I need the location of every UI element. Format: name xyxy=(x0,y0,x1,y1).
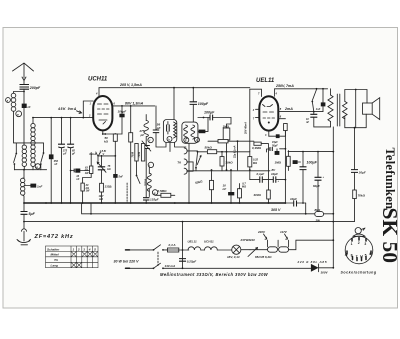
wire bypass xyxy=(250,179,286,181)
svg-text:3: 3 xyxy=(364,242,366,246)
volume switch arrow xyxy=(197,156,201,165)
resistor 20kOhm 1W xyxy=(83,174,92,184)
svg-text:0,5MΩ: 0,5MΩ xyxy=(158,189,168,193)
tube UEL11 pin 7b xyxy=(256,117,260,119)
svg-text:10µF: 10µF xyxy=(290,197,297,201)
svg-text:60µF: 60µF xyxy=(313,184,320,188)
svg-text:nF: nF xyxy=(306,121,310,124)
svg-text:24TW/B10: 24TW/B10 xyxy=(240,238,256,242)
svg-text:0,25µF: 0,25µF xyxy=(187,260,197,264)
svg-text:100µF: 100µF xyxy=(204,111,215,115)
padder capacitor 65pF xyxy=(70,118,72,145)
capacitor 20uF xyxy=(351,170,358,173)
node G2 circled xyxy=(152,190,157,195)
svg-text:300V: 300V xyxy=(321,271,329,275)
svg-text:50kΩ: 50kΩ xyxy=(205,146,213,150)
svg-text:5µF: 5µF xyxy=(29,212,36,216)
capacitor 16nF series xyxy=(70,170,72,172)
svg-text:pF: pF xyxy=(156,126,161,130)
svg-text:Meßinstrument 333Ω/V, Bereich: Meßinstrument 333Ω/V, Bereich 300V bzw 2… xyxy=(160,272,269,277)
node E circled xyxy=(16,111,22,117)
capacitor 5uF xyxy=(21,212,28,215)
TA jack 1 xyxy=(184,148,187,154)
svg-text:UCH11: UCH11 xyxy=(204,239,214,243)
tube UCH11 cathode wire xyxy=(102,130,104,134)
svg-text:Mittel: Mittel xyxy=(51,253,59,257)
svg-text:140 mA: 140 mA xyxy=(165,264,176,268)
wire grid line xyxy=(33,117,93,119)
coil 005 xyxy=(21,178,25,195)
svg-text:80V 1,3mA: 80V 1,3mA xyxy=(125,102,144,106)
antenna xyxy=(13,63,34,78)
svg-text:45K 9mA: 45K 9mA xyxy=(57,107,77,111)
svg-text:UEL11: UEL11 xyxy=(256,78,275,84)
svg-text:UCH11: UCH11 xyxy=(88,77,108,83)
cathode resistor xyxy=(284,124,288,131)
tube UEL11 pin 3 xyxy=(268,131,270,137)
band frame bottom xyxy=(14,169,46,171)
tube UEL11 pin 5 anode xyxy=(278,111,323,113)
capacitor series 2nF xyxy=(22,104,27,108)
svg-text:1W: 1W xyxy=(85,172,89,175)
svg-text:30kΩ: 30kΩ xyxy=(225,160,233,164)
wire band frame down xyxy=(23,170,25,178)
heater junction vertical xyxy=(182,222,184,269)
switch osc xyxy=(136,161,138,175)
coil band B xyxy=(31,123,35,166)
socket pins xyxy=(347,238,371,261)
wire field coil feed xyxy=(355,90,357,128)
tube UCH11 pin 6 anode xyxy=(112,105,154,107)
node antenna/coil junction xyxy=(23,91,25,93)
coupling resistor xyxy=(218,140,228,143)
svg-text:5nF: 5nF xyxy=(119,176,124,179)
switch band right xyxy=(43,152,45,154)
svg-text:70kΩ: 70kΩ xyxy=(358,193,366,197)
svg-text:5: 5 xyxy=(365,254,367,258)
svg-text:0,1µF: 0,1µF xyxy=(257,172,265,176)
svg-text:0,4 A: 0,4 A xyxy=(169,243,176,247)
capacitor 60uF electrolytic xyxy=(317,152,319,178)
svg-text:Telefunken: Telefunken xyxy=(383,148,397,210)
resistor 70kOhm xyxy=(353,190,357,199)
bus 305V rail xyxy=(82,203,334,214)
resistor 30kOhm xyxy=(220,157,224,166)
IF transformer 1 xyxy=(163,120,176,143)
svg-text:kΩ: kΩ xyxy=(107,168,110,171)
node E circled band xyxy=(35,164,40,169)
wire 22u 8,1mA xyxy=(237,141,239,170)
svg-text:kΩ: kΩ xyxy=(104,139,109,143)
coil 7039 a xyxy=(135,144,138,162)
svg-text:2mA: 2mA xyxy=(284,107,293,111)
capacitor 5nF xyxy=(113,174,117,178)
node L circled xyxy=(148,162,153,167)
svg-text:l: l xyxy=(149,163,150,167)
svg-text:4: 4 xyxy=(369,252,371,256)
detector line with capacitor 100uF xyxy=(198,117,210,119)
earth ground symbol xyxy=(17,239,31,245)
svg-text:Schalter: Schalter xyxy=(47,247,60,251)
mains plug prongs xyxy=(127,250,153,268)
svg-text:20µF: 20µF xyxy=(358,170,366,174)
capacitor 0,25uF xyxy=(179,259,186,262)
wire antenna coil to band frame xyxy=(14,111,17,143)
svg-text:nF: nF xyxy=(54,163,58,166)
svg-text:SK 50: SK 50 xyxy=(378,208,400,264)
switch link dashed xyxy=(157,252,159,266)
svg-text:220 E 88L A85: 220 E 88L A85 xyxy=(297,260,328,264)
capacitor 050nF xyxy=(49,154,54,159)
svg-text:ZF=472 kHz: ZF=472 kHz xyxy=(34,234,74,240)
svg-text:g: g xyxy=(153,191,156,195)
svg-text:5: 5 xyxy=(94,247,96,251)
svg-text:pF: pF xyxy=(71,153,76,156)
anode supply 250V xyxy=(275,88,328,90)
capacitor 100pF xyxy=(121,106,123,114)
svg-text:200pF: 200pF xyxy=(29,86,41,90)
capacitor 50nF xyxy=(199,130,206,134)
node grid/band xyxy=(32,117,34,119)
capacitor 10nF xyxy=(313,112,315,115)
capacitor grid xyxy=(293,160,298,164)
tube UEL11 pin 6 top xyxy=(274,89,276,97)
ground bus main xyxy=(24,202,285,204)
tube UEL11 pin 7 top xyxy=(250,89,262,96)
svg-text:220V: 220V xyxy=(257,230,266,234)
resistor 0,1MOhm xyxy=(238,189,242,198)
svg-text:pF: pF xyxy=(140,133,145,137)
wire antenna feed xyxy=(23,81,25,146)
switch TA xyxy=(196,153,198,167)
svg-text:TA: TA xyxy=(177,161,181,165)
pilot lamp xyxy=(232,245,241,254)
svg-text:30 W bei 220 V: 30 W bei 220 V xyxy=(114,259,140,263)
svg-text:20V 48mA: 20V 48mA xyxy=(245,122,248,135)
capacitor 56pF xyxy=(155,106,157,130)
resistor osc grid xyxy=(130,106,132,133)
voltage selector arrow xyxy=(248,248,258,257)
capacitor 100uF filter xyxy=(192,88,194,102)
svg-text:135Δ: 135Δ xyxy=(105,185,112,189)
capacitor grid UEL11 xyxy=(269,124,286,137)
node top line xyxy=(316,88,318,90)
svg-text:4: 4 xyxy=(345,252,348,257)
capacitor 135pF xyxy=(143,198,149,200)
svg-text:100µF: 100µF xyxy=(198,102,209,106)
TA jack 3 xyxy=(184,168,187,174)
svg-text:400Ω: 400Ω xyxy=(253,193,262,197)
tube UEL11 pin 2 xyxy=(256,108,260,110)
mains switch upper xyxy=(153,249,155,251)
detector line xyxy=(198,151,250,153)
capacitor 1nF xyxy=(322,89,324,103)
wire pot to AF xyxy=(226,152,228,171)
svg-text:10µF: 10µF xyxy=(271,172,278,176)
svg-text:65/135 6,2Ω: 65/135 6,2Ω xyxy=(255,255,272,259)
antenna coil L1 xyxy=(11,93,16,111)
node A circled xyxy=(184,138,189,143)
earth connection hook xyxy=(22,222,27,241)
trimmer 275pF xyxy=(143,146,150,149)
svg-text:nF: nF xyxy=(76,178,80,181)
heater return xyxy=(289,240,334,250)
svg-text:1MΩ: 1MΩ xyxy=(275,161,282,165)
svg-text:3: 3 xyxy=(83,247,85,251)
padder capacitor 175pF xyxy=(61,118,63,145)
bus lower chassis xyxy=(24,221,333,223)
svg-text:nF: nF xyxy=(223,187,227,191)
svg-text:1nF: 1nF xyxy=(37,185,43,189)
svg-text:100pF: 100pF xyxy=(118,109,127,113)
svg-text:2: 2 xyxy=(358,241,360,245)
svg-text:nF: nF xyxy=(28,106,32,109)
svg-text:100µF: 100µF xyxy=(307,161,318,165)
B+ vertical from rectifier xyxy=(332,127,334,268)
wire grid feed 45K 9mA xyxy=(83,101,93,118)
junction dots ground bus xyxy=(45,202,240,204)
anode top bus 205V xyxy=(99,87,250,89)
node C circled xyxy=(195,137,200,142)
wire secondary top xyxy=(345,90,367,104)
IF transformer 2 xyxy=(182,122,198,143)
svg-text:117V: 117V xyxy=(280,230,288,234)
tone switch xyxy=(312,90,316,101)
svg-text:7: 7 xyxy=(356,255,358,259)
svg-text:3 mA: 3 mA xyxy=(89,152,96,156)
node a circled xyxy=(6,98,11,103)
wire IF1 down xyxy=(170,143,186,152)
svg-text:50µF: 50µF xyxy=(272,144,278,147)
capacitor 1uF xyxy=(24,185,30,187)
resistor 135 osc xyxy=(100,183,104,192)
svg-text:18V, 0,14: 18V, 0,14 xyxy=(227,255,240,259)
svg-text:135µF: 135µF xyxy=(150,198,159,202)
oscillator trimmer xyxy=(98,167,105,170)
switch band left xyxy=(15,143,17,154)
AF line xyxy=(187,170,270,172)
band frame top xyxy=(16,142,43,144)
svg-text:8: 8 xyxy=(351,254,353,258)
tube UCH11 pin 4 top xyxy=(98,88,100,96)
wire from top bus to IF1 xyxy=(173,88,175,120)
svg-text:22µ 8,1mA: 22µ 8,1mA xyxy=(234,145,237,159)
capacitor C-ant 200pF xyxy=(20,85,30,90)
svg-text:250V, 7mA: 250V, 7mA xyxy=(275,84,294,88)
svg-text:205 V, 1,5mA: 205 V, 1,5mA xyxy=(119,83,142,87)
svg-text:MΩ: MΩ xyxy=(253,162,257,165)
coil 7039 b xyxy=(141,144,144,162)
svg-text:pF: pF xyxy=(62,153,67,156)
svg-text:1nF: 1nF xyxy=(316,108,321,111)
svg-text:1: 1 xyxy=(351,242,353,246)
tube UCH11 xyxy=(93,96,112,130)
svg-text:4: 4 xyxy=(88,247,91,251)
resistor 63kOhm 1W xyxy=(90,153,92,167)
svg-text:7039: 7039 xyxy=(131,151,134,157)
oscillator coil F xyxy=(145,115,147,121)
svg-text:0,3MΩ: 0,3MΩ xyxy=(252,146,262,150)
wire xyxy=(98,155,115,157)
tube UEL11 pin 8 cathode xyxy=(278,118,285,120)
output transformer secondary xyxy=(342,101,347,119)
node B circled xyxy=(167,137,172,142)
svg-text:Lang: Lang xyxy=(51,264,59,268)
resistor 0,25MOhm xyxy=(248,157,252,167)
transformer core xyxy=(337,94,340,126)
mains switch lower xyxy=(153,267,155,269)
coil 7039A xyxy=(147,173,151,191)
output transformer primary xyxy=(330,89,332,95)
svg-text:2: 2 xyxy=(77,247,80,251)
coil band A xyxy=(22,145,26,167)
wire to antenna coil xyxy=(14,92,25,94)
svg-text:305 V: 305 V xyxy=(271,208,281,212)
capacitor 100uF electrolytic xyxy=(302,152,304,167)
tube socket diagram xyxy=(345,236,373,264)
svg-text:1W: 1W xyxy=(86,190,90,193)
svg-text:UEL11: UEL11 xyxy=(188,239,197,243)
switch position table xyxy=(46,246,99,268)
dial cord dashed xyxy=(126,183,128,203)
svg-text:MΩ: MΩ xyxy=(242,185,246,188)
tube UEL11 xyxy=(259,96,278,130)
svg-text:7039: 7039 xyxy=(138,151,141,157)
wire secondary bottom xyxy=(345,114,366,128)
wire IF down xyxy=(188,143,190,203)
wire screen feed xyxy=(249,89,251,151)
svg-text:7039Δ: 7039Δ xyxy=(145,178,148,186)
B+ horizontal xyxy=(288,151,333,153)
svg-text:Sockelschaltung: Sockelschaltung xyxy=(341,271,377,275)
resistor 0,3MOhm xyxy=(254,142,261,145)
svg-text:1: 1 xyxy=(73,247,75,251)
voltage selector taps xyxy=(250,249,268,251)
speaker xyxy=(363,103,373,114)
wire Y split xyxy=(96,152,101,162)
